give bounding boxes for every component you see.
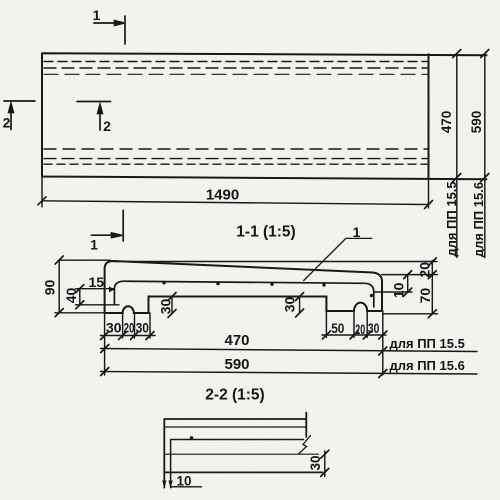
dimension 15 arrow — [109, 286, 115, 292]
dimension 50-20-30 right — [322, 297, 387, 340]
rebar dots section 1-1 — [162, 281, 373, 297]
section 1-1 top flange soffit — [114, 281, 373, 307]
dimension 590 plan right — [481, 50, 489, 258]
section 1-1 outer profile — [105, 261, 382, 313]
leader 1 — [304, 238, 372, 280]
plan view outline — [42, 53, 487, 179]
plan hidden line bottom 1 — [44, 148, 427, 150]
section 2-2 soffit — [171, 440, 304, 488]
section 2-2 line2 — [164, 426, 306, 428]
dimension 90 — [55, 256, 110, 317]
plan hidden line top 3 — [44, 73, 427, 75]
section mark 2 inner — [77, 102, 111, 131]
rebar dot 2-2 — [190, 436, 193, 439]
dimension 30-20-30 left — [101, 313, 156, 340]
section 2-2 step line — [164, 453, 318, 455]
section mark 2 left — [4, 101, 35, 130]
extension verticals to width dims — [105, 311, 383, 375]
plan hidden line top 1 — [44, 61, 427, 63]
dimension 590 section — [101, 368, 478, 378]
dimension 20-70 right — [382, 258, 438, 318]
dimension 470 plan right — [453, 50, 461, 258]
top extension line flat — [114, 261, 437, 263]
dimension 30 section 2-2 — [321, 450, 329, 476]
section 2-2 bottom — [164, 471, 322, 473]
dimension 1490 — [38, 177, 433, 209]
section 2-2 top slab — [164, 413, 306, 488]
plan hidden line bottom 3 — [44, 163, 427, 165]
section 2-2 break mark — [299, 436, 311, 454]
scan noise overlay — [0, 0, 1, 1]
section mark 1 top — [94, 16, 125, 44]
dimension 30 step left rotated — [149, 293, 177, 318]
plan hidden line top 2 — [44, 67, 427, 69]
dimension 40 — [76, 285, 120, 309]
dimension 10 right — [374, 271, 412, 296]
dimension 30 step right rotated — [296, 293, 327, 318]
dimension 470 section — [101, 345, 478, 356]
dimension 10 section 2-2 — [162, 481, 201, 489]
section mark 1 bottom — [91, 210, 123, 241]
plan hidden line bottom 2 — [44, 158, 427, 160]
